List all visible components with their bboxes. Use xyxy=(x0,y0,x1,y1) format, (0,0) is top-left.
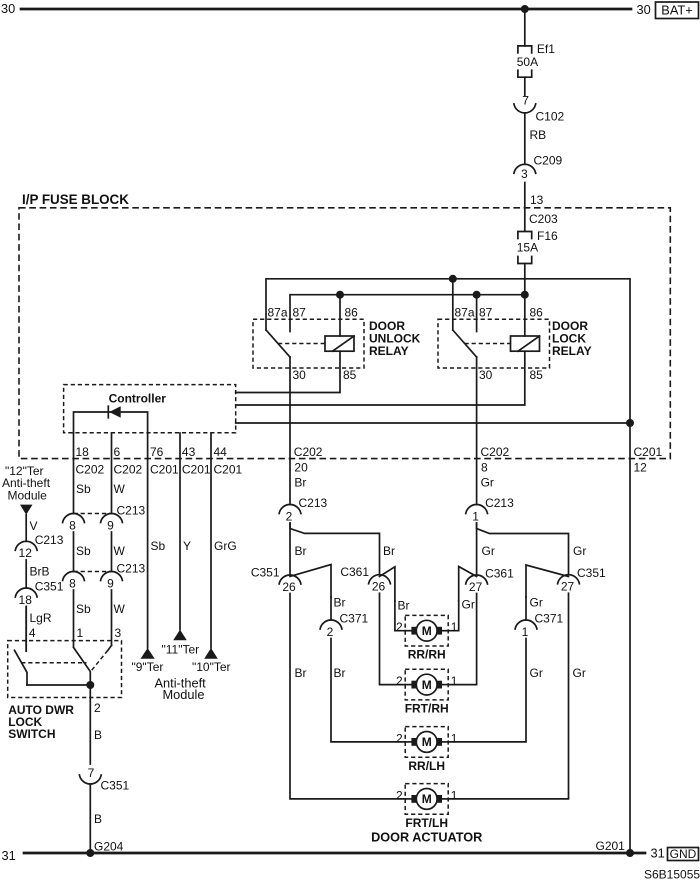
svg-text:G204: G204 xyxy=(94,840,124,854)
svg-text:87a: 87a xyxy=(455,306,475,320)
wire Ef1 to connector C102 xyxy=(524,77,526,95)
svg-text:1: 1 xyxy=(451,674,458,688)
svg-text:LgR: LgR xyxy=(30,611,52,625)
junction bus2 to lock 87 xyxy=(473,291,481,299)
svg-text:Gr: Gr xyxy=(482,544,495,558)
svg-text:G201: G201 xyxy=(596,839,626,853)
anti-theft module label top-left xyxy=(2,464,51,503)
unlock relay armature link dashed xyxy=(278,343,325,345)
connector C351 pin 26 xyxy=(251,566,301,594)
svg-text:4: 4 xyxy=(29,626,36,640)
wire controller to ground bus xyxy=(236,422,630,424)
switch pin3 dashed throw xyxy=(91,650,108,671)
svg-text:50A: 50A xyxy=(517,55,538,69)
wire Sb pin18 xyxy=(74,433,92,514)
label 10Ter xyxy=(192,660,231,674)
svg-text:C371: C371 xyxy=(340,612,369,626)
svg-text:C102: C102 xyxy=(536,110,565,124)
svg-text:Br: Br xyxy=(398,599,410,613)
svg-text:M: M xyxy=(422,792,432,806)
connector C213 pair2 label xyxy=(117,562,146,576)
svg-text:27: 27 xyxy=(561,580,575,594)
svg-text:7: 7 xyxy=(88,766,95,780)
wire from 30 bus to fuse Ef1 xyxy=(524,9,526,46)
svg-text:3: 3 xyxy=(521,167,528,181)
svg-text:43: 43 xyxy=(182,445,196,459)
svg-text:GrG: GrG xyxy=(214,539,237,553)
svg-text:85: 85 xyxy=(343,368,357,382)
svg-text:W: W xyxy=(114,544,126,558)
inline connector C213 dashed link 1 xyxy=(74,513,112,515)
pin label 44 C201 xyxy=(214,445,243,477)
svg-text:15A: 15A xyxy=(517,241,538,255)
svg-text:12: 12 xyxy=(19,546,33,560)
wire W lower xyxy=(112,590,126,645)
connector C351 pin 7 xyxy=(79,766,129,793)
svg-text:26: 26 xyxy=(282,580,296,594)
svg-text:Gr: Gr xyxy=(481,476,494,490)
wire Gr C361 to FRT-RH xyxy=(448,594,476,685)
svg-text:Sb: Sb xyxy=(76,482,91,496)
svg-text:31: 31 xyxy=(2,848,16,863)
svg-text:C351: C351 xyxy=(577,566,606,580)
node 31 label right xyxy=(651,846,665,861)
svg-text:C213: C213 xyxy=(117,504,146,518)
svg-text:C202: C202 xyxy=(76,463,105,477)
pin label 87 unlock xyxy=(293,306,307,320)
svg-text:6: 6 xyxy=(114,445,121,459)
svg-text:87a: 87a xyxy=(268,306,288,320)
connector C351 pin 27 xyxy=(558,566,606,593)
GND terminal box xyxy=(668,847,699,861)
door lock actuator motor RR/LH xyxy=(396,727,458,773)
svg-text:Module: Module xyxy=(8,489,48,503)
diagram code S6B15055 xyxy=(644,868,700,881)
junction controller line on right bus xyxy=(626,419,634,427)
wire C209 to C203 xyxy=(524,183,526,232)
wire GrG pin44 xyxy=(211,433,237,648)
wire F16 to bus2 junction xyxy=(524,264,526,295)
svg-text:RELAY: RELAY xyxy=(552,344,592,358)
connector pin 8 xyxy=(63,513,85,532)
fuse Ef1 50A xyxy=(517,42,556,77)
wire LgR xyxy=(26,607,52,652)
svg-text:C361: C361 xyxy=(340,565,369,579)
svg-text:Br: Br xyxy=(295,544,307,558)
inline connector C213 dashed link 2 xyxy=(74,571,112,573)
switch blade pin4 xyxy=(15,650,28,685)
svg-text:86: 86 xyxy=(530,306,544,320)
svg-text:SWITCH: SWITCH xyxy=(8,727,55,741)
wire W mid xyxy=(112,532,126,572)
wire 30 battery bus xyxy=(21,8,631,11)
label Gr jog branch xyxy=(573,544,586,558)
connector C102 pin 7 xyxy=(514,93,565,123)
wire Gr C371 to RR-LH xyxy=(448,639,543,742)
connector C209 pin 3 xyxy=(514,153,563,181)
svg-text:76: 76 xyxy=(150,445,164,459)
svg-text:RR/RH: RR/RH xyxy=(408,647,446,661)
door actuator label xyxy=(371,831,482,845)
wire Gr split jog xyxy=(477,523,569,575)
svg-text:Sb: Sb xyxy=(76,544,91,558)
svg-text:2: 2 xyxy=(286,509,293,523)
pin label 87a lock xyxy=(455,306,475,320)
connector C351 pin 18 xyxy=(15,580,63,607)
connector C213 pin 2 xyxy=(279,496,327,523)
switch blade pin1 xyxy=(74,647,91,685)
svg-text:C209: C209 xyxy=(534,153,563,167)
door unlock relay box xyxy=(253,319,364,368)
svg-text:B: B xyxy=(94,728,102,742)
junction bus1 to lock 87a xyxy=(449,275,457,283)
wire Y pin43 xyxy=(180,433,191,630)
pin label 85 unlock xyxy=(343,368,357,382)
terminal triangle 11Ter xyxy=(173,630,187,641)
svg-text:Y: Y xyxy=(183,539,191,553)
door lock actuator motor FRT/LH xyxy=(396,784,458,830)
node 30 label left xyxy=(1,1,15,16)
unlock relay switch blade xyxy=(266,330,290,357)
svg-text:F16: F16 xyxy=(537,229,558,243)
wire right bus to C201 xyxy=(629,423,631,853)
svg-text:2: 2 xyxy=(327,625,334,639)
svg-text:2: 2 xyxy=(396,620,403,634)
svg-text:C213: C213 xyxy=(485,496,514,510)
auto dwr lock switch name xyxy=(8,703,74,741)
lock relay armature link dashed xyxy=(465,343,511,345)
svg-text:Gr: Gr xyxy=(530,596,543,610)
svg-text:1: 1 xyxy=(451,731,458,745)
svg-text:M: M xyxy=(422,678,432,692)
pin label 87 lock xyxy=(479,306,493,320)
svg-text:C371: C371 xyxy=(535,612,564,626)
wire Gr main to C361-27 xyxy=(477,523,495,575)
svg-text:27: 27 xyxy=(469,580,483,594)
switch pin3 hook xyxy=(108,645,112,650)
node 30 label right xyxy=(637,2,651,17)
svg-text:W: W xyxy=(114,602,126,616)
svg-text:87: 87 xyxy=(293,306,307,320)
wire unlock 30 output xyxy=(289,357,291,505)
pin label 43 C201 xyxy=(182,445,211,477)
svg-text:Gr: Gr xyxy=(573,544,586,558)
svg-text:13: 13 xyxy=(530,193,544,207)
svg-text:C351: C351 xyxy=(251,566,280,580)
connector C201 pin 12 at fuse block edge xyxy=(634,445,663,474)
svg-text:V: V xyxy=(30,519,38,533)
switch common wire xyxy=(27,684,90,686)
wire unlock 85 to controller xyxy=(236,351,340,392)
controller internal wire with diode xyxy=(74,412,148,433)
wire lock 30 output xyxy=(476,357,478,505)
branch diagonal to C371 left xyxy=(290,565,331,598)
svg-text:2: 2 xyxy=(396,731,403,745)
branch diagonal to C371 right xyxy=(526,565,569,597)
svg-text:2: 2 xyxy=(396,674,403,688)
svg-text:18: 18 xyxy=(19,593,33,607)
pin label 18 C202 xyxy=(76,445,105,477)
svg-text:GND: GND xyxy=(670,847,697,861)
label 11Ter xyxy=(162,643,200,657)
svg-text:Sb: Sb xyxy=(76,602,91,616)
svg-text:C201: C201 xyxy=(634,445,663,459)
label 9Ter xyxy=(132,660,164,674)
connector C361 pin 26 xyxy=(340,565,390,593)
svg-text:Ef1: Ef1 xyxy=(537,42,555,56)
svg-text:C201: C201 xyxy=(150,463,179,477)
anti-theft module label bottom xyxy=(155,676,207,703)
svg-text:Sb: Sb xyxy=(151,539,166,553)
pin label 76 C201 xyxy=(150,445,179,477)
svg-text:S6B15055: S6B15055 xyxy=(644,868,700,881)
svg-text:C203: C203 xyxy=(529,212,558,226)
wire Gr to C371-1 xyxy=(526,596,543,621)
svg-text:C351: C351 xyxy=(101,779,130,793)
connector C371 pin 1 xyxy=(515,612,563,639)
pin label 30 unlock xyxy=(293,368,307,382)
I/P fuse block dashed box xyxy=(19,208,670,459)
wire RB xyxy=(525,113,546,164)
svg-text:M: M xyxy=(422,624,432,638)
wire Br C371 to RR-LH xyxy=(331,639,405,742)
pin label 86 unlock xyxy=(345,306,359,320)
svg-text:12: 12 xyxy=(634,460,648,474)
connector pin 9 xyxy=(101,513,123,532)
pin label 6 C202 xyxy=(114,445,143,477)
label C202 8 Gr xyxy=(481,445,510,490)
svg-text:FRT/LH: FRT/LH xyxy=(405,816,448,830)
wire Br main to FRT-LH xyxy=(290,594,405,799)
svg-text:C201: C201 xyxy=(214,463,243,477)
svg-text:C202: C202 xyxy=(481,445,510,459)
wire bus2 power feed xyxy=(290,295,525,332)
terminal triangle 9Ter xyxy=(141,648,155,659)
lock relay switch blade xyxy=(453,330,477,357)
svg-text:C351: C351 xyxy=(35,580,64,594)
pin label 87a unlock xyxy=(268,306,288,320)
svg-text:C202: C202 xyxy=(294,445,323,459)
svg-text:9: 9 xyxy=(107,576,114,590)
pin label 85 lock xyxy=(530,368,544,382)
svg-text:M: M xyxy=(422,735,432,749)
svg-text:C213: C213 xyxy=(299,496,328,510)
svg-text:1: 1 xyxy=(77,626,84,640)
junction switch output xyxy=(86,681,94,689)
svg-text:8: 8 xyxy=(69,518,76,532)
svg-text:8: 8 xyxy=(481,460,488,474)
svg-text:FRT/RH: FRT/RH xyxy=(405,702,449,716)
pin label 86 lock xyxy=(530,306,544,320)
wire lock 85 to controller xyxy=(236,351,525,405)
wire lock 86 wire xyxy=(524,295,526,336)
branch diagonal to RR-RH 2 xyxy=(380,567,395,601)
connector C361 pin 27 xyxy=(466,567,514,594)
wire Sb mid xyxy=(74,532,92,572)
svg-text:Br: Br xyxy=(334,596,346,610)
svg-text:87: 87 xyxy=(479,306,493,320)
wire Br split jog xyxy=(290,523,380,575)
switch pin 4 stub xyxy=(25,607,27,652)
connector pin 8 xyxy=(63,571,85,590)
wire 31 ground bus xyxy=(24,852,645,855)
svg-text:1: 1 xyxy=(522,625,529,639)
wire 2 B from switch xyxy=(90,685,102,764)
svg-text:1: 1 xyxy=(451,620,458,634)
svg-text:I/P FUSE BLOCK: I/P FUSE BLOCK xyxy=(22,192,129,207)
svg-text:44: 44 xyxy=(214,445,228,459)
junction on 30 bus xyxy=(521,5,529,13)
svg-text:BAT+: BAT+ xyxy=(661,3,692,18)
pin label 30 lock xyxy=(479,368,493,382)
auto dwr lock switch box xyxy=(8,641,122,698)
junction bus2 F16 node xyxy=(521,291,529,299)
svg-text:W: W xyxy=(114,482,126,496)
node 31 label left xyxy=(2,848,16,863)
wire Br main to C351-26 xyxy=(290,523,307,575)
svg-text:C361: C361 xyxy=(485,567,514,581)
svg-text:C213: C213 xyxy=(35,533,64,547)
svg-text:3: 3 xyxy=(115,626,122,640)
svg-text:"9"Ter: "9"Ter xyxy=(132,660,164,674)
svg-text:1: 1 xyxy=(472,509,479,523)
wire Gr main to FRT-LH xyxy=(448,593,586,799)
label Br jog branch xyxy=(383,544,395,558)
wire bus1 87a feed xyxy=(266,279,630,423)
svg-text:Br: Br xyxy=(294,476,306,490)
controller name xyxy=(109,392,167,406)
terminal triangle 10Ter xyxy=(204,648,218,659)
svg-text:26: 26 xyxy=(372,580,386,594)
svg-text:31: 31 xyxy=(651,846,665,861)
svg-text:Controller: Controller xyxy=(109,392,167,406)
wire B to G204 xyxy=(90,784,102,853)
svg-text:30: 30 xyxy=(479,368,493,382)
unlock relay coil xyxy=(325,336,354,351)
wire Br branch to RR-RH xyxy=(395,599,410,631)
wire lock 87 stub xyxy=(476,295,478,332)
door lock relay name xyxy=(552,319,592,358)
connector pin 9 xyxy=(101,571,123,590)
svg-text:BrB: BrB xyxy=(30,565,50,579)
svg-text:30: 30 xyxy=(293,368,307,382)
connector C203 pin 13 at fuse block edge xyxy=(529,193,558,226)
svg-text:Gr: Gr xyxy=(462,598,475,612)
svg-text:"10"Ter: "10"Ter xyxy=(192,660,231,674)
svg-text:85: 85 xyxy=(530,368,544,382)
wire Sb pin76 xyxy=(148,433,166,648)
svg-text:Gr: Gr xyxy=(573,666,586,680)
connector C213 pair1 label xyxy=(117,504,146,518)
svg-text:30: 30 xyxy=(1,1,15,16)
svg-text:C202: C202 xyxy=(114,463,143,477)
wire Br to C371-2 xyxy=(331,596,346,621)
svg-text:Br: Br xyxy=(295,666,307,680)
I/P FUSE BLOCK label xyxy=(22,192,129,207)
wire lock 87a stub xyxy=(452,279,454,330)
wire BrB xyxy=(26,560,49,588)
svg-text:RB: RB xyxy=(530,128,547,142)
svg-text:Br: Br xyxy=(383,544,395,558)
door lock relay box xyxy=(438,319,550,368)
lock relay coil xyxy=(511,336,540,351)
svg-text:1: 1 xyxy=(451,788,458,802)
svg-text:Gr: Gr xyxy=(530,666,543,680)
ground node G204 xyxy=(86,840,123,858)
door lock actuator motor RR/RH xyxy=(396,615,458,661)
connector C213 pin 12 xyxy=(15,533,63,560)
svg-text:Br: Br xyxy=(334,666,346,680)
svg-text:2: 2 xyxy=(396,788,403,802)
svg-text:DOOR ACTUATOR: DOOR ACTUATOR xyxy=(371,831,482,845)
svg-text:18: 18 xyxy=(76,445,90,459)
svg-text:B: B xyxy=(94,812,102,826)
fuse F16 15A xyxy=(517,229,558,264)
wire Br C361 to FRT-RH xyxy=(380,593,406,684)
wire Sb lower xyxy=(74,590,92,646)
wire Gr branch to RR-RH xyxy=(448,598,475,631)
svg-text:"11"Ter: "11"Ter xyxy=(162,643,200,657)
svg-text:7: 7 xyxy=(522,93,529,107)
connector C213 pin 1 xyxy=(466,496,514,523)
svg-text:30: 30 xyxy=(637,2,651,17)
svg-text:C201: C201 xyxy=(182,463,211,477)
branch diagonal to RR-RH 1 xyxy=(459,567,477,602)
svg-text:8: 8 xyxy=(69,576,76,590)
BAT+ terminal box xyxy=(656,2,699,19)
switch linkage dashed xyxy=(21,662,86,664)
terminal triangle from anti-theft module xyxy=(20,505,33,515)
svg-text:2: 2 xyxy=(94,701,101,715)
wire W pin6 xyxy=(112,433,126,514)
connector C371 pin 2 xyxy=(320,612,368,639)
label C202 20 Br xyxy=(294,445,323,490)
door unlock relay name xyxy=(369,319,421,358)
junction bus2 to unlock 86 xyxy=(336,291,344,299)
door lock actuator motor FRT/RH xyxy=(396,669,458,715)
svg-text:9: 9 xyxy=(107,518,114,532)
ground node G201 xyxy=(596,839,635,857)
svg-text:86: 86 xyxy=(345,306,359,320)
svg-text:RELAY: RELAY xyxy=(369,344,409,358)
wire V xyxy=(26,515,37,542)
svg-text:RR/LH: RR/LH xyxy=(408,759,445,773)
wire unlock 86 wire xyxy=(339,295,341,336)
svg-text:C213: C213 xyxy=(117,562,146,576)
svg-text:20: 20 xyxy=(294,460,308,474)
svg-text:Module: Module xyxy=(163,687,205,702)
controller box xyxy=(64,385,236,433)
diode D1 xyxy=(108,406,120,418)
